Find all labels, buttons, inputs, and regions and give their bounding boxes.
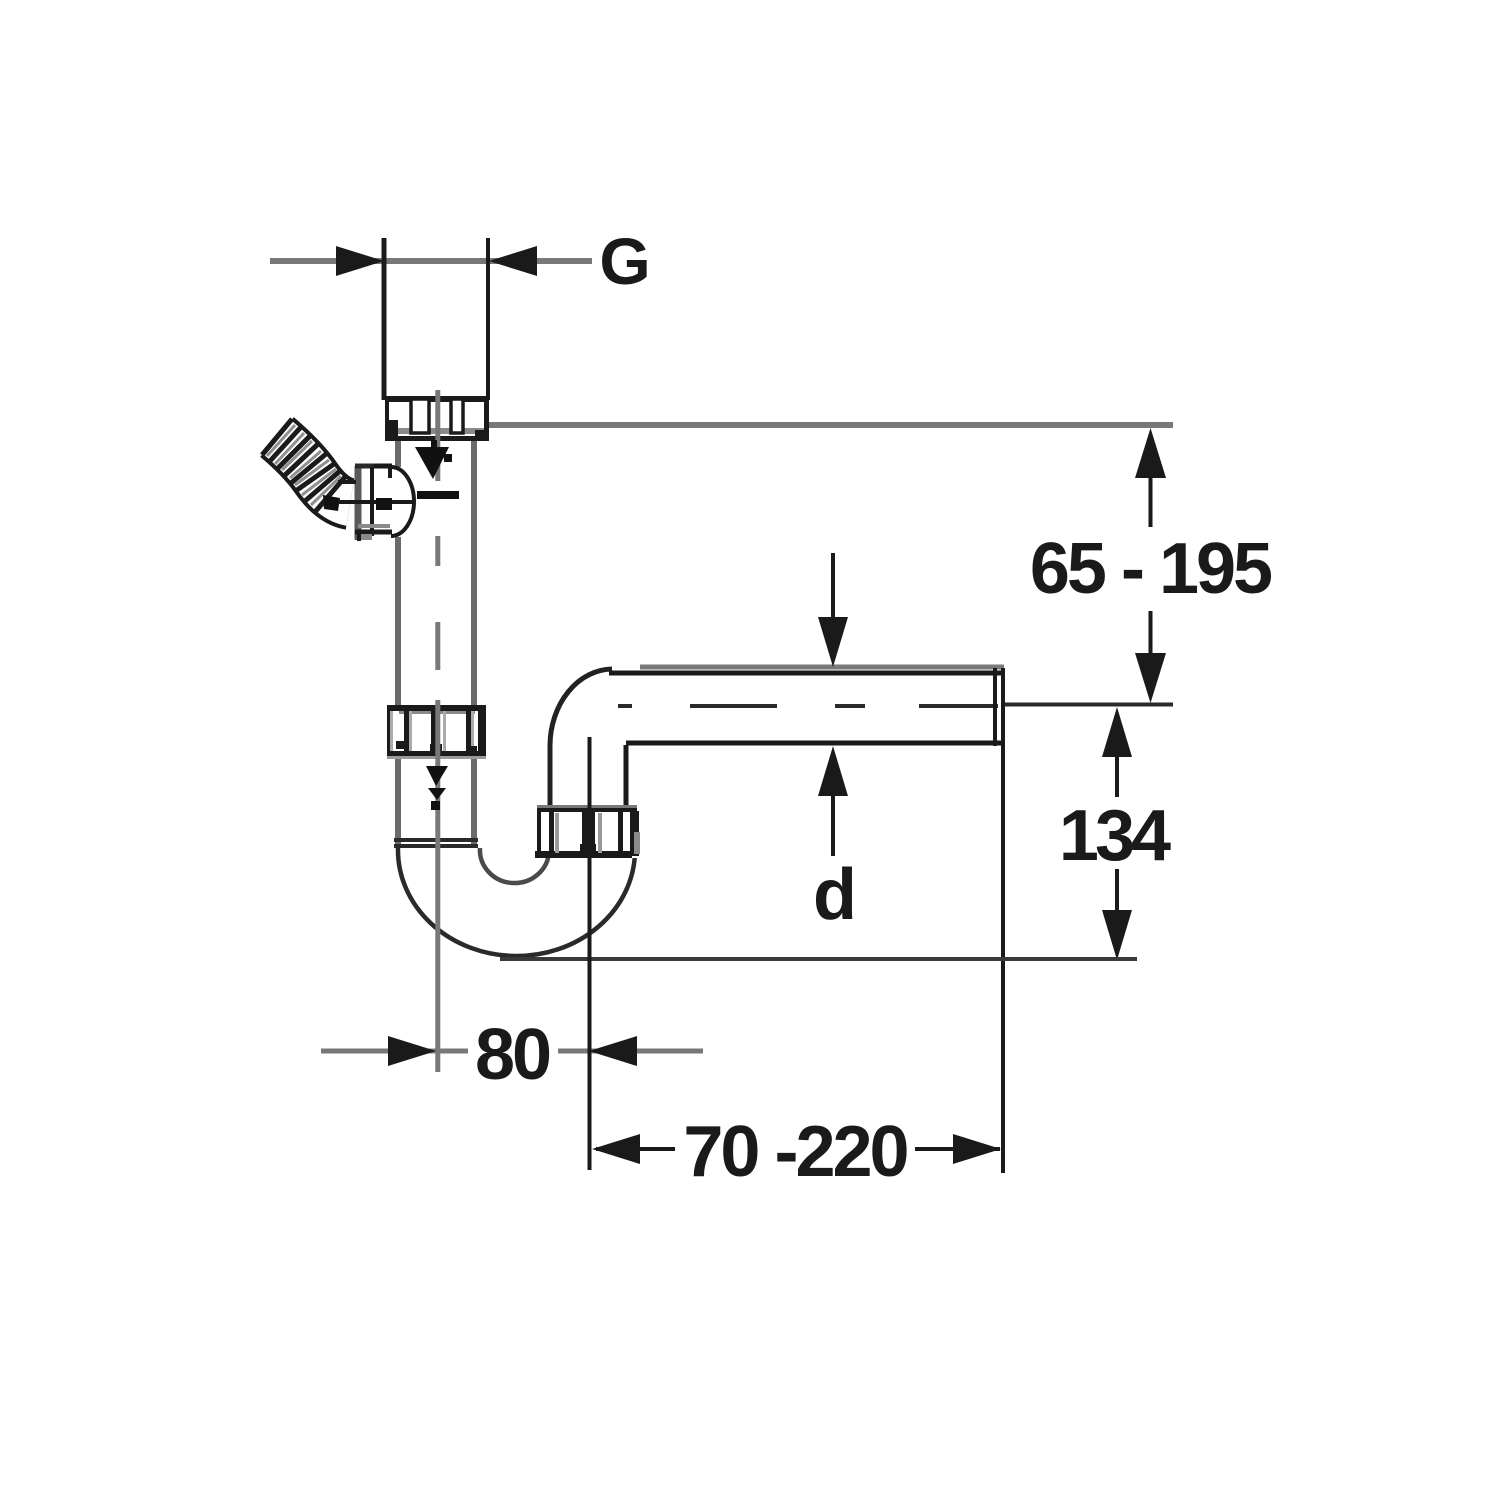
pipe joint lines above trap bbox=[394, 838, 478, 842]
dimension d: lower up arrow and line bbox=[818, 746, 848, 796]
flow arrow below union nut bbox=[426, 766, 448, 810]
union nut above trap bbox=[387, 705, 486, 759]
top nut (G sink connection) bbox=[385, 396, 489, 441]
corrugated hose (dishwasher connection) bbox=[262, 419, 350, 512]
pipe end cap right line + extension down to 70-220 dimension bbox=[1001, 668, 1005, 1173]
dimension G: gray dimension line bbox=[270, 258, 592, 264]
dimension 70-220: dimension line bbox=[596, 1147, 1000, 1151]
dimension 80: gray dimension line bbox=[321, 1049, 703, 1054]
dimension G: left-pointing arrow bbox=[489, 246, 537, 276]
trap outlet union nut bbox=[535, 805, 640, 858]
vertical pipe centerline (gray dash-dot) bbox=[435, 390, 440, 1072]
trap outer U curve bbox=[398, 848, 635, 956]
shared extension line (80 right / 70-220 left) bbox=[588, 737, 592, 1170]
svg-text:G: G bbox=[599, 224, 650, 298]
svg-text:65 - 195: 65 - 195 bbox=[1030, 529, 1272, 609]
svg-text:d: d bbox=[813, 855, 857, 935]
trap outlet limb: inner (right) edge bbox=[624, 745, 629, 806]
centerline black dash mark bbox=[417, 491, 459, 499]
dimension 80: left-pointing arrow bbox=[589, 1036, 637, 1066]
hose fitting (angle valve nut) on pipe bbox=[338, 466, 414, 541]
centerline extension to the right of pipe end bbox=[1005, 703, 1173, 707]
horizontal outlet pipe: top edge black bbox=[609, 671, 1004, 676]
horizontal outlet pipe: bottom edge bbox=[626, 741, 1004, 746]
dimension G: left extension line bbox=[382, 238, 387, 400]
reference line from top nut (65-195 upper datum), gray bbox=[489, 422, 1173, 428]
vertical tailpiece pipe: left edge bbox=[395, 441, 401, 467]
vertical tailpiece pipe: right edge bbox=[471, 441, 477, 848]
horizontal pipe centerline dashes bbox=[618, 704, 998, 708]
trap outlet limb: outer (left) curved edge rising to horizontal pipe bbox=[550, 669, 612, 812]
dimension 65-195: lower line with down arrow bbox=[1149, 611, 1153, 653]
dimension 134: lower line with down arrow bbox=[1115, 869, 1119, 910]
hose flow arrow blob bbox=[323, 495, 340, 511]
trap inner U curve bbox=[480, 848, 549, 883]
dimension 65-195: vertical line with up arrow bbox=[1135, 428, 1166, 478]
pipe end cap left line bbox=[993, 668, 997, 746]
dimension 80: white backing for text bbox=[468, 1021, 558, 1081]
svg-text:80: 80 bbox=[475, 1015, 550, 1095]
dimension d: upper line and down arrow bbox=[831, 553, 835, 620]
dimension 70-220: left-pointing arrow bbox=[592, 1134, 640, 1164]
dimension G: right-pointing arrow bbox=[336, 246, 384, 276]
horizontal outlet pipe: top edge gray highlight bbox=[640, 665, 1004, 670]
dimension 80: right-pointing arrow bbox=[388, 1036, 436, 1066]
dimension 70-220: white backing for text bbox=[675, 1120, 915, 1180]
svg-text:70 -220: 70 -220 bbox=[683, 1112, 907, 1192]
dimension 134: up arrow at centerline bbox=[1102, 707, 1132, 757]
dimension G: right extension line bbox=[486, 238, 490, 400]
dimension 70-220: right-pointing arrow bbox=[953, 1134, 1001, 1164]
svg-text:134: 134 bbox=[1059, 796, 1171, 876]
flow arrow in tailpiece below top nut bbox=[415, 440, 452, 479]
bottom reference line at trap bottom bbox=[500, 957, 1137, 961]
